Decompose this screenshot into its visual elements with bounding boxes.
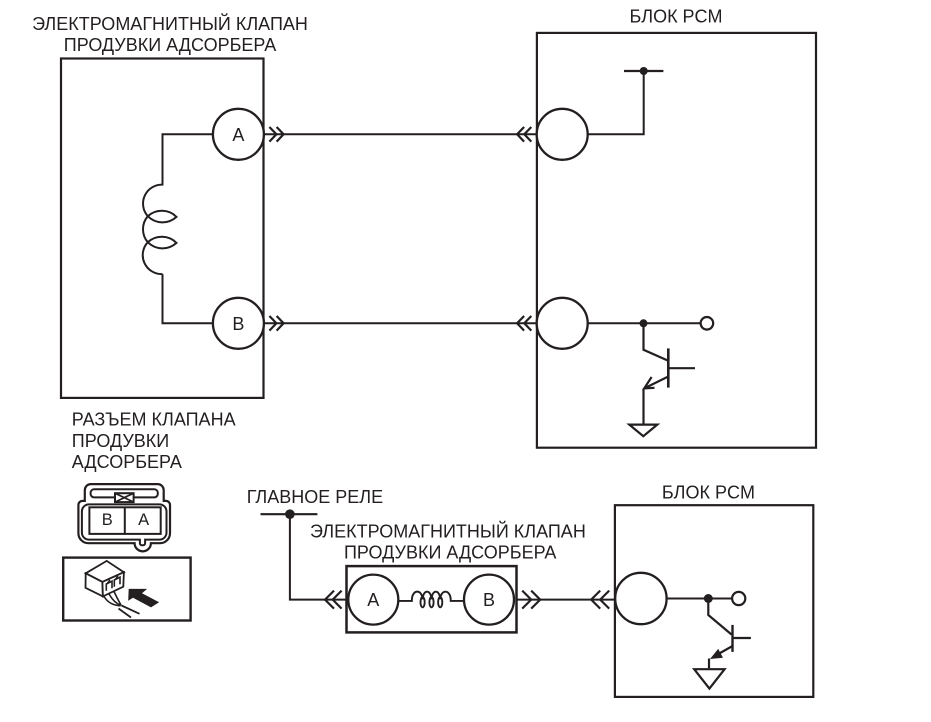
svg-text:ПРОДУВКИ АДСОРБЕРА: ПРОДУВКИ АДСОРБЕРА (64, 35, 276, 55)
svg-text:БЛОК PCM: БЛОК PCM (629, 7, 722, 27)
collector lead (644, 323, 669, 361)
PCM pin (bottom, driver output) (537, 298, 588, 349)
chevron connector marks >> on wire B (269, 316, 283, 331)
emitter lead (713, 646, 733, 657)
wire power rail to PCM pin (588, 71, 644, 134)
pin recess 2 (114, 577, 120, 587)
test point (open circle terminal) (701, 317, 714, 330)
base lead (733, 637, 751, 639)
transistor Q2 (PCM2 output driver) (708, 599, 751, 658)
chevron connector marks << at PCM2 (591, 591, 609, 609)
valve box (solenoid valve enclosure) (61, 59, 264, 398)
collector lead (708, 599, 731, 635)
connector body inner contour (82, 504, 167, 545)
svg-text:ЭЛЕКТРОМАГНИТНЫЙ КЛАПАН: ЭЛЕКТРОМАГНИТНЫЙ КЛАПАН (32, 13, 308, 34)
main relay rail (bar) (261, 513, 318, 515)
svg-text:АДСОРБЕРА: АДСОРБЕРА (72, 452, 182, 472)
valve box (bottom) (347, 566, 517, 632)
inductor L1 (valve solenoid coil, vertical) (143, 185, 177, 275)
svg-text:БЛОК PCM: БЛОК PCM (662, 483, 755, 503)
cube top face (86, 561, 124, 582)
svg-text:РАЗЪЕМ КЛАПАНА: РАЗЪЕМ КЛАПАНА (72, 409, 236, 429)
node (junction dot on relay rail) (285, 509, 295, 519)
svg-text:A: A (367, 590, 379, 610)
node (junction dot on power rail) (640, 67, 648, 75)
cube right face (102, 572, 124, 596)
pin recess 1 (106, 581, 112, 591)
connector face view (valve connector B|A) (78, 484, 170, 551)
svg-text:ПРОДУВКИ: ПРОДУВКИ (72, 431, 169, 451)
emitter lead with open arrowhead (644, 377, 668, 389)
connector latch (bowtie) (115, 493, 134, 502)
power rail symbol (bar with node) (624, 70, 663, 72)
pin B (valve connector terminal B) (213, 298, 264, 349)
svg-text:ГЛАВНОЕ РЕЛЕ: ГЛАВНОЕ РЕЛЕ (247, 487, 383, 507)
wire B to PCM (264, 322, 537, 324)
emitter wire (642, 389, 644, 425)
svg-text:ПРОДУВКИ АДСОРБЕРА: ПРОДУВКИ АДСОРБЕРА (344, 542, 556, 562)
svg-text:A: A (232, 125, 244, 145)
PCM box (bottom) (615, 505, 813, 697)
wire valve B to PCM2 (517, 599, 615, 601)
svg-text:A: A (138, 511, 149, 529)
node (junction dot at Q2 collector) (704, 594, 713, 603)
wire relay to valve A (290, 514, 347, 599)
svg-text:ЭЛЕКТРОМАГНИТНЫЙ КЛАПАН: ЭЛЕКТРОМАГНИТНЫЙ КЛАПАН (310, 521, 586, 542)
base bar (667, 348, 670, 387)
svg-text:B: B (483, 590, 495, 610)
connector outer silhouette (78, 484, 170, 551)
pin A (bottom valve) (348, 575, 398, 625)
chevron connector marks << on wire A at PCM (517, 127, 531, 142)
wire PCM pin to test point (588, 322, 701, 324)
connector cells (89, 507, 160, 534)
connector hat slot (91, 489, 158, 497)
chevron connector marks << at valve A (325, 591, 342, 609)
base lead (668, 367, 695, 369)
chevron connector marks >> after valve B (522, 591, 540, 609)
svg-text:B: B (232, 314, 244, 334)
wire A to coil and inductor L1 (bottom, horizontal coil) (398, 592, 464, 608)
chevron connector marks << on wire B at PCM (517, 316, 531, 331)
PCM2 pin (driver output) (615, 573, 666, 624)
wire from coil to pin A (163, 134, 213, 185)
svg-text:B: B (102, 511, 113, 529)
harness connector 3D icon (86, 561, 140, 618)
harness side view box (63, 558, 190, 621)
cube left face (86, 573, 103, 596)
node (junction dot at collector) (640, 319, 648, 327)
cell divider (124, 507, 126, 534)
PCM pin (top, power feed) (537, 109, 588, 160)
chevron connector marks >> on wire A (269, 127, 283, 142)
wire PCM2 pin to test point (667, 598, 732, 600)
wire from coil to pin B (163, 274, 213, 323)
ground (PCM2 driver emitter) (694, 669, 724, 688)
transistor Q1 (PCM output driver) (644, 323, 696, 424)
base bar (731, 625, 733, 652)
pin B (bottom valve) (464, 575, 514, 625)
inspection arrow (filled) (128, 589, 159, 608)
ground (PCM driver emitter) (629, 425, 657, 437)
wire A to PCM (264, 133, 537, 135)
test point (open circle terminal, bottom) (732, 592, 745, 605)
emitter wire Q2 (708, 659, 710, 669)
harness wires (104, 597, 121, 606)
PCM box (top) (537, 33, 816, 448)
pin A (valve connector terminal A) (213, 109, 264, 160)
emitter filled arrowhead Q2 (710, 649, 723, 659)
